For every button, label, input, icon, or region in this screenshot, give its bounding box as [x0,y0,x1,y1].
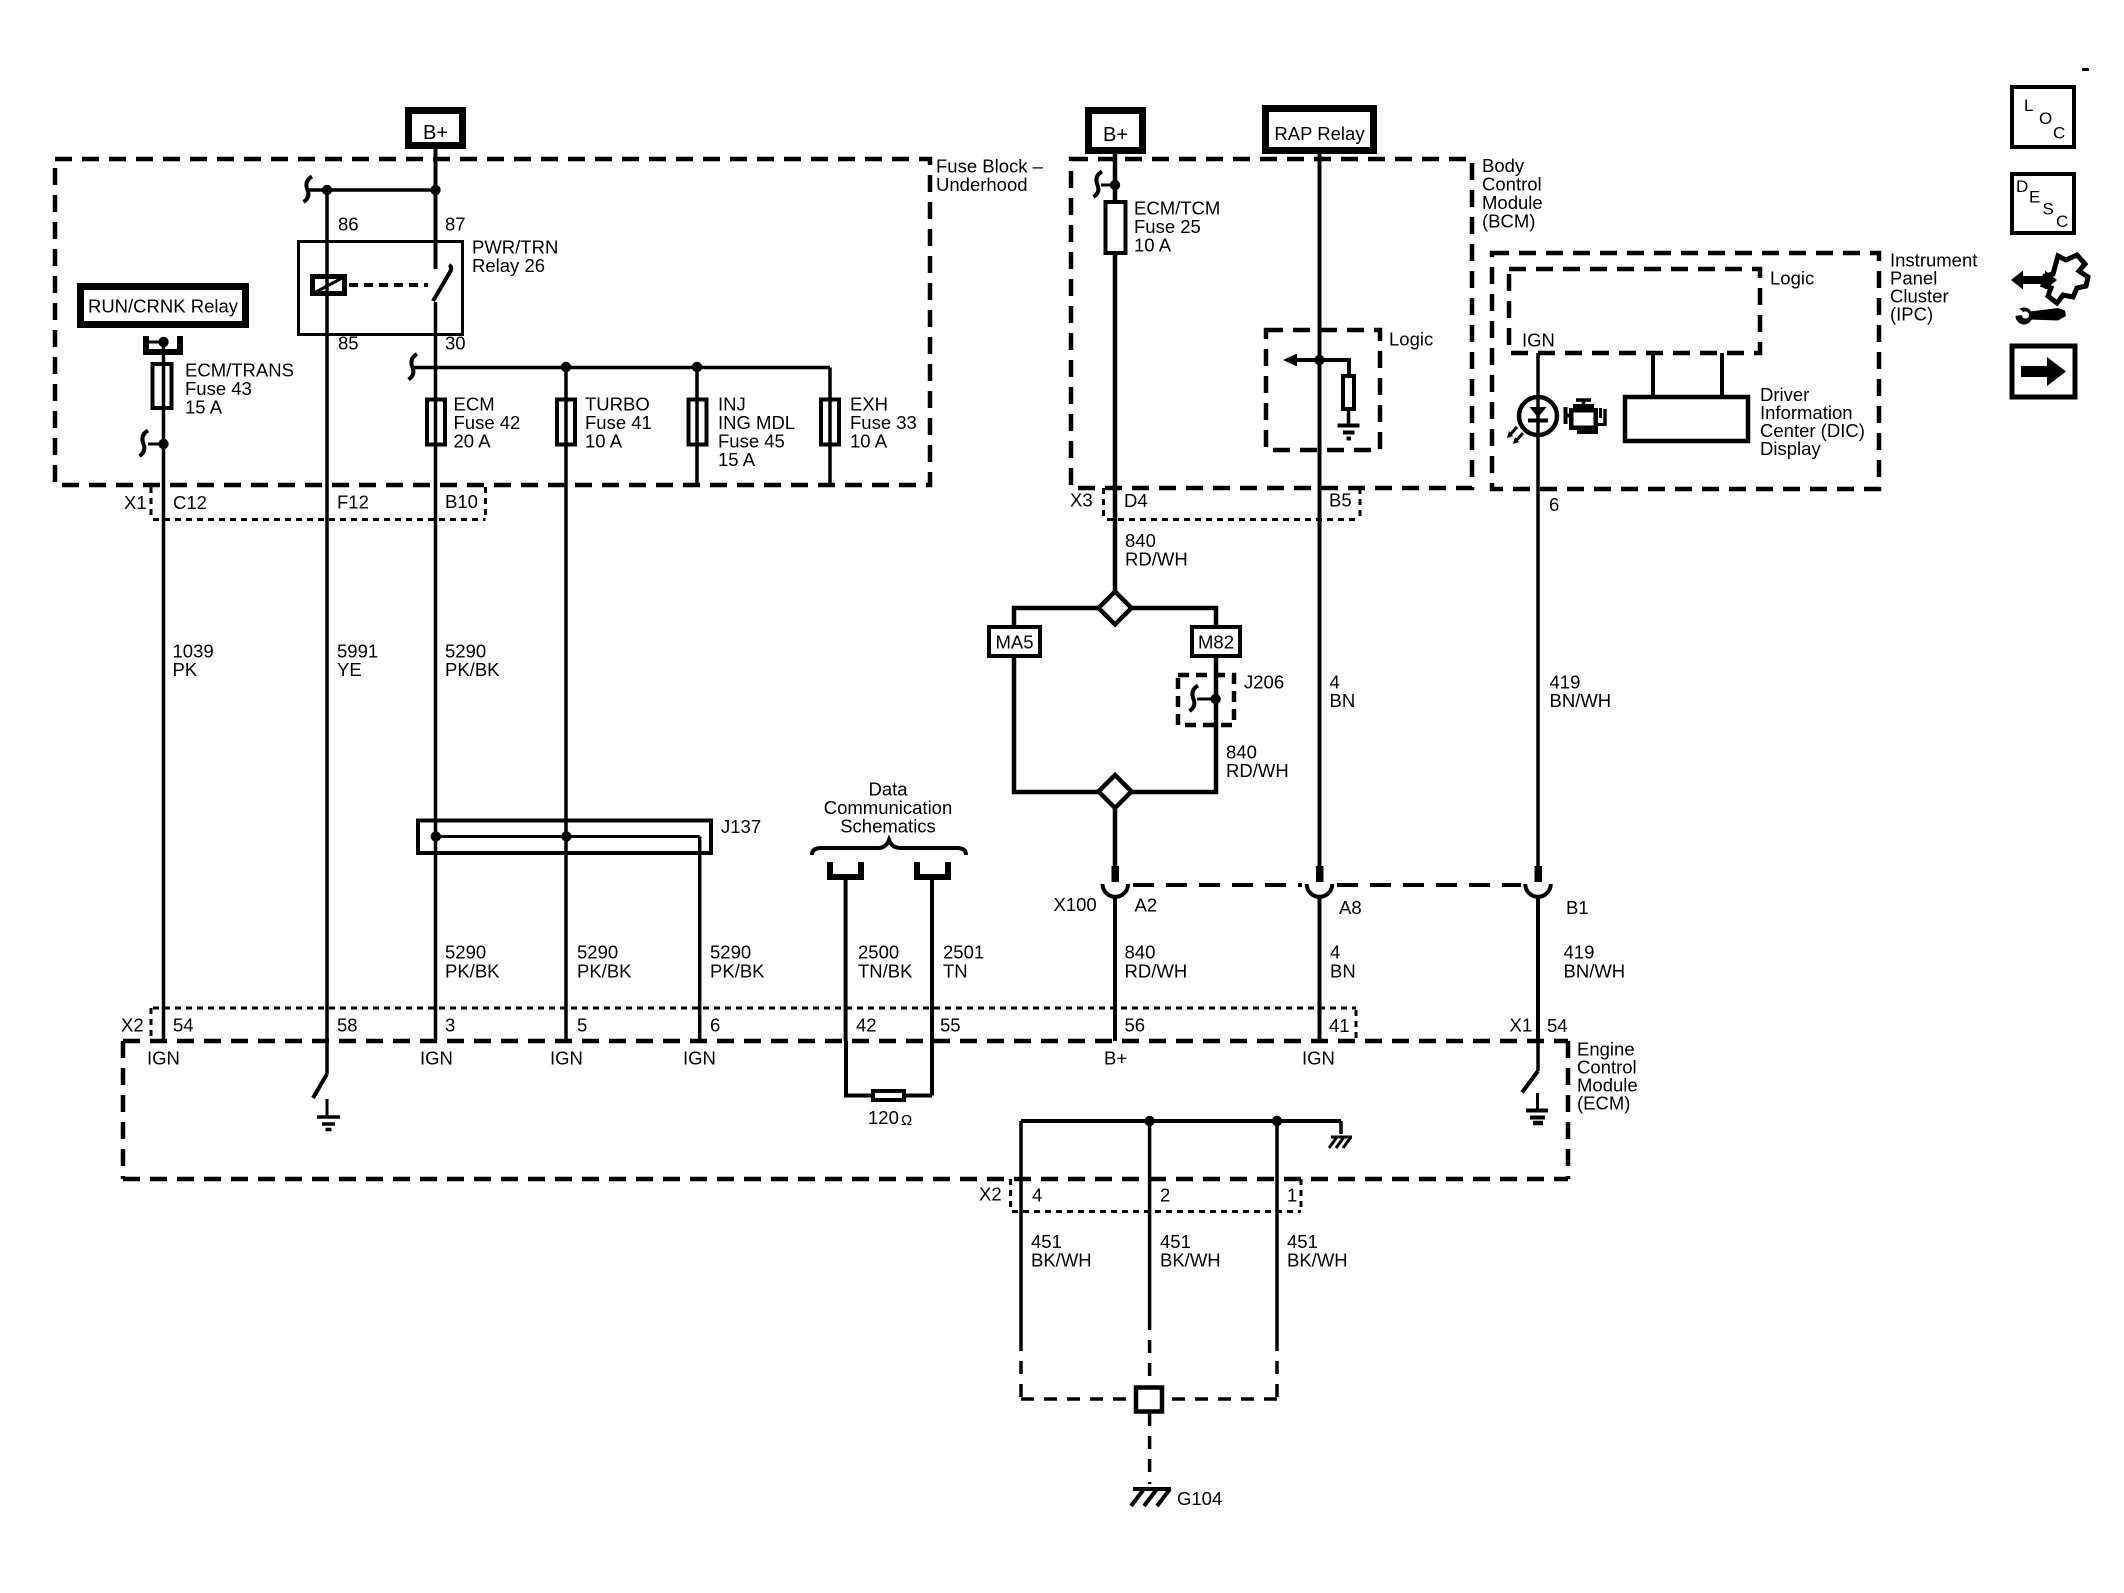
svg-text:C: C [2053,124,2065,143]
svg-text:6: 6 [710,1015,720,1036]
svg-text:X3: X3 [1070,490,1093,511]
svg-text:A8: A8 [1339,897,1362,918]
svg-text:(BCM): (BCM) [1482,211,1535,232]
svg-text:54: 54 [1547,1015,1568,1036]
svg-text:D: D [2016,177,2028,196]
svg-text:Ω: Ω [901,1112,912,1129]
svg-text:IGN: IGN [683,1048,716,1069]
svg-text:B1: B1 [1566,897,1589,918]
svg-text:120: 120 [868,1107,899,1128]
svg-text:20 A: 20 A [454,431,492,452]
svg-text:54: 54 [173,1015,194,1036]
svg-text:1: 1 [1287,1185,1297,1206]
svg-text:IGN: IGN [147,1048,180,1069]
svg-text:J206: J206 [1244,672,1284,693]
svg-text:Relay 26: Relay 26 [472,255,545,276]
svg-text:O: O [2039,109,2052,128]
svg-text:BK/WH: BK/WH [1160,1250,1221,1271]
svg-text:Display: Display [1760,438,1821,459]
svg-text:BN/WH: BN/WH [1564,961,1626,982]
svg-text:Logic: Logic [1389,329,1433,350]
svg-text:C: C [2056,212,2068,231]
svg-text:15 A: 15 A [718,449,756,470]
svg-text:86: 86 [338,214,359,235]
svg-text:(IPC): (IPC) [1890,304,1933,325]
svg-text:4: 4 [1032,1185,1042,1206]
svg-text:B10: B10 [445,491,478,512]
svg-text:IGN: IGN [420,1048,453,1069]
svg-text:5290: 5290 [577,942,618,963]
svg-text:D4: D4 [1124,490,1148,511]
svg-text:56: 56 [1125,1015,1146,1036]
svg-text:RUN/CRNK Relay: RUN/CRNK Relay [88,296,239,317]
svg-text:B+: B+ [423,122,448,144]
svg-text:10 A: 10 A [850,431,888,452]
svg-text:5290: 5290 [445,942,486,963]
svg-text:4: 4 [1330,942,1340,963]
svg-text:M82: M82 [1198,632,1234,653]
svg-text:X1: X1 [124,492,147,513]
svg-text:PK/BK: PK/BK [445,961,500,982]
svg-text:87: 87 [445,214,466,235]
svg-text:PK/BK: PK/BK [445,659,500,680]
svg-text:(ECM): (ECM) [1577,1093,1630,1114]
svg-text:BK/WH: BK/WH [1031,1250,1092,1271]
svg-text:2500: 2500 [858,942,899,963]
svg-text:YE: YE [337,659,362,680]
svg-text:X100: X100 [1054,894,1097,915]
svg-text:IGN: IGN [1522,330,1555,351]
svg-text:15 A: 15 A [185,397,223,418]
svg-text:10 A: 10 A [585,431,623,452]
svg-text:58: 58 [337,1015,358,1036]
svg-text:B+: B+ [1103,124,1128,146]
svg-text:S: S [2043,200,2054,219]
svg-text:RD/WH: RD/WH [1125,549,1188,570]
svg-text:3: 3 [445,1015,455,1036]
svg-text:X1: X1 [1510,1015,1533,1036]
svg-text:Logic: Logic [1770,268,1814,289]
svg-text:B5: B5 [1329,490,1352,511]
svg-text:5: 5 [577,1015,587,1036]
svg-text:IGN: IGN [1302,1048,1335,1069]
svg-text:PK: PK [173,659,198,680]
svg-text:E: E [2029,188,2040,207]
svg-text:RD/WH: RD/WH [1226,760,1289,781]
svg-text:419: 419 [1564,942,1595,963]
svg-text:PK/BK: PK/BK [710,961,765,982]
svg-text:A2: A2 [1135,895,1158,916]
svg-text:6: 6 [1549,494,1559,515]
svg-text:55: 55 [940,1015,961,1036]
svg-text:41: 41 [1329,1015,1350,1036]
svg-text:5290: 5290 [710,942,751,963]
svg-text:Underhood: Underhood [936,174,1028,195]
svg-text:BN: BN [1330,961,1356,982]
svg-text:B+: B+ [1104,1048,1127,1069]
svg-text:PK/BK: PK/BK [577,961,632,982]
svg-text:BK/WH: BK/WH [1287,1250,1348,1271]
svg-text:85: 85 [338,333,359,354]
svg-text:IGN: IGN [550,1048,583,1069]
svg-text:TN/BK: TN/BK [858,961,913,982]
svg-text:2: 2 [1160,1185,1170,1206]
svg-text:BN: BN [1330,690,1356,711]
svg-text:G104: G104 [1177,1488,1222,1509]
svg-text:RD/WH: RD/WH [1125,961,1188,982]
svg-text:840: 840 [1125,942,1156,963]
svg-text:X2: X2 [121,1015,144,1036]
svg-text:Schematics: Schematics [840,816,936,837]
svg-text:42: 42 [856,1015,877,1036]
svg-text:2501: 2501 [943,942,984,963]
svg-text:X2: X2 [979,1184,1002,1205]
svg-text:C12: C12 [173,492,207,513]
svg-text:10 A: 10 A [1134,235,1172,256]
svg-text:J137: J137 [721,816,761,837]
svg-text:BN/WH: BN/WH [1550,690,1612,711]
svg-text:L: L [2024,96,2033,115]
svg-text:TN: TN [943,961,968,982]
svg-text:MA5: MA5 [995,632,1033,653]
svg-text:RAP Relay: RAP Relay [1274,123,1365,144]
svg-text:30: 30 [445,333,466,354]
svg-text:F12: F12 [337,492,369,513]
